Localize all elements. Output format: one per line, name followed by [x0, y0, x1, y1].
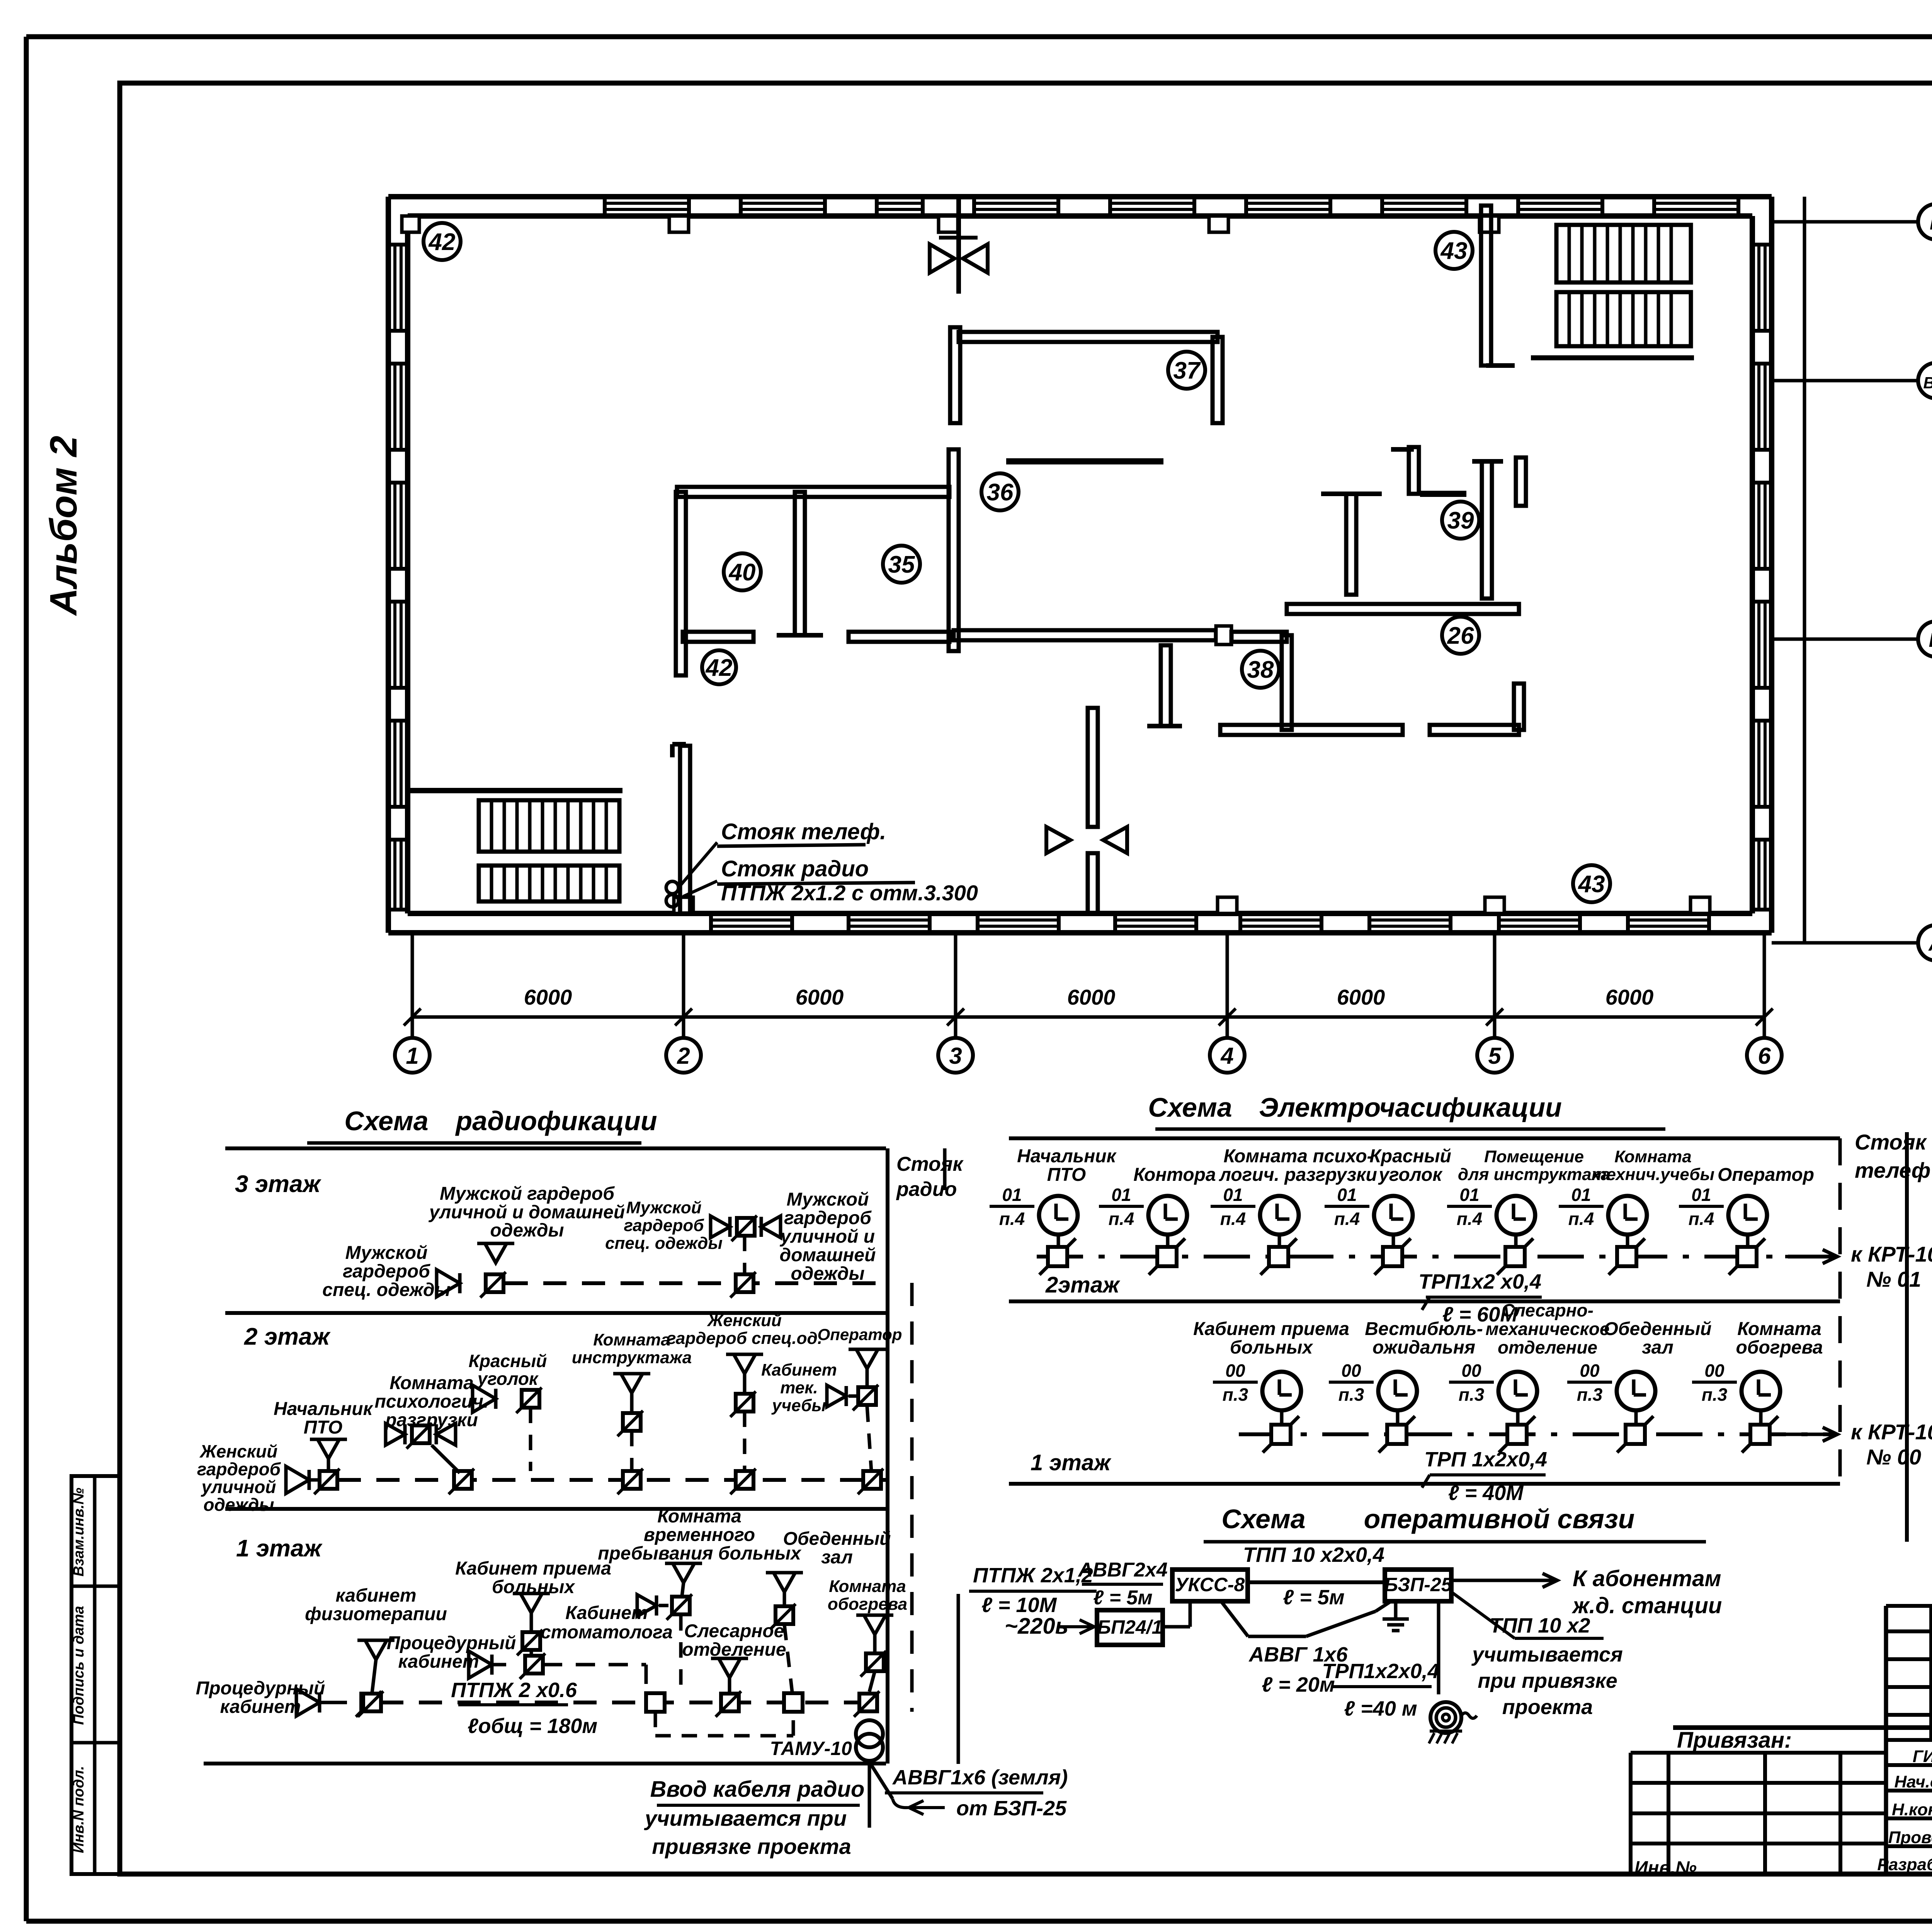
- svg-text:1 этаж: 1 этаж: [1031, 1450, 1112, 1475]
- svg-text:Альбом 2: Альбом 2: [42, 436, 85, 617]
- svg-text:01: 01: [1459, 1185, 1479, 1205]
- svg-text:00: 00: [1704, 1361, 1725, 1381]
- svg-text:Мужской: Мужской: [345, 1243, 428, 1263]
- svg-text:Красный: Красный: [469, 1351, 547, 1371]
- svg-text:гардероб: гардероб: [197, 1459, 281, 1479]
- svg-text:6000: 6000: [1067, 985, 1116, 1009]
- svg-text:ожидальня: ожидальня: [1372, 1337, 1475, 1358]
- svg-text:пребывания больных: пребывания больных: [598, 1543, 802, 1564]
- svg-text:№ 01: № 01: [1866, 1267, 1921, 1291]
- svg-text:42: 42: [705, 655, 733, 681]
- svg-text:п.3: п.3: [1459, 1384, 1485, 1405]
- svg-text:ГИП: ГИП: [1913, 1747, 1932, 1766]
- svg-text:Инв.N подл.: Инв.N подл.: [71, 1766, 87, 1853]
- svg-text:гардероб: гардероб: [624, 1216, 705, 1235]
- svg-text:01: 01: [1691, 1185, 1711, 1205]
- svg-text:01: 01: [1111, 1185, 1131, 1205]
- svg-text:гардероб: гардероб: [784, 1208, 872, 1228]
- svg-text:Стояк телеф.: Стояк телеф.: [721, 819, 886, 844]
- svg-text:Н.контр.: Н.контр.: [1892, 1800, 1932, 1819]
- svg-text:Инв.№: Инв.№: [1634, 1858, 1697, 1878]
- svg-text:Начальник: Начальник: [1017, 1146, 1117, 1167]
- svg-text:ПТПЖ 2х1,2: ПТПЖ 2х1,2: [973, 1564, 1093, 1587]
- svg-text:Кабинет: Кабинет: [761, 1361, 837, 1379]
- svg-text:Оператор: Оператор: [818, 1325, 902, 1344]
- svg-text:радио: радио: [896, 1178, 957, 1201]
- svg-text:от БЗП-25: от БЗП-25: [956, 1797, 1067, 1820]
- svg-text:43: 43: [1440, 238, 1468, 264]
- svg-text:оперативной связи: оперативной связи: [1364, 1504, 1635, 1534]
- svg-text:Комната психо-: Комната психо-: [1223, 1146, 1373, 1167]
- svg-text:п.4: п.4: [1109, 1209, 1134, 1229]
- svg-text:отделение: отделение: [1498, 1337, 1597, 1357]
- svg-text:01: 01: [1337, 1185, 1357, 1205]
- svg-text:6000: 6000: [524, 985, 572, 1009]
- svg-text:кабинет: кабинет: [220, 1697, 301, 1717]
- svg-text:ТПП 10 х2х0,4: ТПП 10 х2х0,4: [1243, 1543, 1384, 1566]
- svg-text:п.4: п.4: [999, 1209, 1025, 1229]
- svg-text:В/1: В/1: [1923, 374, 1932, 392]
- svg-text:Проверил: Проверил: [1888, 1828, 1932, 1847]
- svg-text:п.4: п.4: [1689, 1209, 1714, 1229]
- svg-text:Мужской: Мужской: [787, 1189, 869, 1210]
- svg-text:ТРП1х2 х0,4: ТРП1х2 х0,4: [1418, 1270, 1541, 1293]
- svg-text:тек.: тек.: [780, 1378, 818, 1397]
- svg-text:А: А: [1928, 933, 1932, 955]
- svg-text:Начальник: Начальник: [274, 1399, 373, 1419]
- svg-text:к КРТ-10: к КРТ-10: [1851, 1420, 1932, 1444]
- svg-text:Нач.отд: Нач.отд: [1894, 1772, 1932, 1791]
- svg-text:Привязан:: Привязан:: [1677, 1728, 1792, 1753]
- svg-text:Ввод кабеля радио: Ввод кабеля радио: [650, 1777, 865, 1802]
- svg-text:временного: временного: [644, 1525, 755, 1545]
- svg-text:Комната: Комната: [389, 1373, 474, 1393]
- svg-text:40: 40: [728, 559, 756, 586]
- svg-text:ТАМУ-10: ТАМУ-10: [770, 1738, 852, 1759]
- svg-text:ℓ = 5м: ℓ = 5м: [1283, 1586, 1344, 1609]
- svg-text:для инструктаха: для инструктаха: [1458, 1165, 1610, 1184]
- svg-text:ж.д. станции: ж.д. станции: [1571, 1593, 1722, 1618]
- svg-text:п.3: п.3: [1702, 1384, 1728, 1405]
- svg-text:Обеденный: Обеденный: [1604, 1319, 1712, 1339]
- svg-text:учитывается при: учитывается при: [644, 1806, 847, 1830]
- svg-text:3: 3: [949, 1043, 962, 1069]
- svg-text:АВВГ2х4: АВВГ2х4: [1077, 1559, 1167, 1581]
- svg-text:зал: зал: [1642, 1337, 1673, 1358]
- svg-text:1 этаж: 1 этаж: [236, 1535, 323, 1562]
- svg-text:38: 38: [1247, 656, 1274, 683]
- svg-text:6000: 6000: [796, 985, 844, 1009]
- svg-text:ТРП 1х2х0,4: ТРП 1х2х0,4: [1424, 1448, 1547, 1471]
- svg-text:гардероб: гардероб: [343, 1261, 430, 1282]
- svg-text:Стояк: Стояк: [1855, 1130, 1927, 1154]
- svg-text:инструктажа: инструктажа: [572, 1348, 692, 1367]
- svg-text:Г: Г: [1930, 212, 1932, 234]
- svg-text:технич.учебы: технич.учебы: [1592, 1165, 1714, 1184]
- svg-text:п.4: п.4: [1568, 1209, 1594, 1229]
- svg-text:АВВГ1х6 (земля): АВВГ1х6 (земля): [892, 1766, 1068, 1789]
- svg-text:больных: больных: [1230, 1337, 1313, 1358]
- svg-text:при привязке: при привязке: [1478, 1669, 1617, 1692]
- svg-text:уличной: уличной: [201, 1477, 276, 1497]
- svg-text:39: 39: [1447, 507, 1474, 534]
- svg-text:Комната: Комната: [1614, 1147, 1691, 1166]
- svg-text:37: 37: [1173, 357, 1201, 384]
- svg-text:2этаж: 2этаж: [1045, 1272, 1121, 1298]
- svg-text:Кабинет приема: Кабинет приема: [455, 1558, 611, 1579]
- svg-text:6000: 6000: [1337, 985, 1385, 1009]
- svg-text:Слесарно-: Слесарно-: [1502, 1300, 1594, 1320]
- svg-text:спец. одежды: спец. одежды: [605, 1234, 723, 1253]
- svg-text:УКСС-8: УКСС-8: [1175, 1574, 1245, 1595]
- svg-text:№ 00: № 00: [1866, 1445, 1921, 1469]
- svg-text:Электрочасификации: Электрочасификации: [1259, 1092, 1562, 1122]
- svg-text:00: 00: [1225, 1361, 1245, 1381]
- svg-text:п.4: п.4: [1220, 1209, 1246, 1229]
- svg-text:гардероб спец.од.: гардероб спец.од.: [667, 1329, 822, 1348]
- svg-text:Кабинет приема: Кабинет приема: [1193, 1319, 1349, 1339]
- svg-text:6: 6: [1758, 1043, 1771, 1069]
- svg-text:Мужской: Мужской: [626, 1198, 701, 1217]
- svg-text:Подпись и дата: Подпись и дата: [71, 1606, 87, 1725]
- svg-text:Обеденный: Обеденный: [783, 1529, 891, 1549]
- svg-text:Схема: Схема: [1221, 1504, 1305, 1534]
- svg-text:Слесарное: Слесарное: [684, 1621, 784, 1641]
- svg-text:Б: Б: [1929, 629, 1932, 651]
- svg-text:6000: 6000: [1605, 985, 1654, 1009]
- svg-text:2 этаж: 2 этаж: [244, 1323, 331, 1350]
- svg-text:1: 1: [406, 1043, 418, 1069]
- svg-text:43: 43: [1578, 871, 1605, 898]
- svg-text:БЗП-25: БЗП-25: [1384, 1574, 1452, 1595]
- svg-text:одежды: одежды: [490, 1220, 564, 1241]
- svg-text:спец. одежды: спец. одежды: [322, 1280, 450, 1300]
- svg-text:Вестибюль-: Вестибюль-: [1365, 1319, 1483, 1339]
- svg-text:00: 00: [1580, 1361, 1600, 1381]
- svg-text:проекта: проекта: [1502, 1696, 1593, 1719]
- svg-text:кабинет: кабинет: [398, 1651, 479, 1672]
- svg-text:26: 26: [1447, 622, 1474, 649]
- svg-text:42: 42: [428, 229, 456, 255]
- svg-text:п.3: п.3: [1223, 1384, 1248, 1405]
- svg-text:Помещение: Помещение: [1484, 1147, 1584, 1166]
- svg-text:учебы: учебы: [771, 1396, 826, 1415]
- svg-text:привязке проекта: привязке проекта: [652, 1834, 851, 1859]
- svg-text:п.3: п.3: [1577, 1384, 1603, 1405]
- svg-text:учитывается: учитывается: [1471, 1643, 1623, 1666]
- svg-text:механическое: механическое: [1486, 1319, 1610, 1339]
- svg-text:ℓобщ = 180м: ℓобщ = 180м: [468, 1714, 597, 1738]
- svg-text:ℓ = 5м: ℓ = 5м: [1093, 1587, 1153, 1609]
- svg-text:5: 5: [1488, 1043, 1502, 1069]
- svg-text:Процедурный: Процедурный: [387, 1633, 516, 1653]
- svg-text:ПТО: ПТО: [1047, 1165, 1086, 1185]
- svg-text:Схема: Схема: [344, 1106, 428, 1136]
- svg-text:уличной и домашней: уличной и домашней: [429, 1202, 625, 1223]
- svg-text:ТПП 10 х2: ТПП 10 х2: [1490, 1614, 1590, 1637]
- svg-text:к КРТ-10: к КРТ-10: [1851, 1242, 1932, 1266]
- svg-text:одежды: одежды: [791, 1264, 864, 1284]
- svg-text:Женский: Женский: [707, 1311, 782, 1330]
- svg-text:п.4: п.4: [1457, 1209, 1482, 1229]
- svg-text:ℓ = 10М: ℓ = 10М: [981, 1594, 1057, 1617]
- svg-text:кабинет: кабинет: [335, 1585, 416, 1606]
- svg-text:уличной и: уличной и: [780, 1226, 875, 1247]
- svg-text:Контора: Контора: [1133, 1165, 1216, 1185]
- svg-text:одежды: одежды: [203, 1495, 274, 1515]
- svg-text:уголок: уголок: [1378, 1165, 1443, 1185]
- svg-text:п.4: п.4: [1334, 1209, 1360, 1229]
- svg-text:уголок: уголок: [477, 1369, 539, 1389]
- svg-text:00: 00: [1341, 1361, 1361, 1381]
- svg-text:Комната: Комната: [593, 1330, 670, 1349]
- svg-text:стоматолога: стоматолога: [541, 1622, 673, 1643]
- svg-text:3 этаж: 3 этаж: [235, 1171, 322, 1197]
- svg-text:Красный: Красный: [1369, 1146, 1451, 1167]
- svg-text:Взам.инв.№: Взам.инв.№: [71, 1488, 87, 1577]
- svg-text:01: 01: [1223, 1185, 1243, 1205]
- svg-text:Оператор: Оператор: [1718, 1165, 1814, 1185]
- svg-text:Разработал: Разработал: [1877, 1855, 1932, 1874]
- svg-text:4: 4: [1220, 1043, 1233, 1069]
- svg-text:00: 00: [1461, 1361, 1481, 1381]
- svg-text:БП24/1: БП24/1: [1097, 1616, 1163, 1638]
- svg-text:зал: зал: [821, 1547, 853, 1568]
- svg-text:35: 35: [888, 551, 915, 578]
- svg-text:ℓ =40 м: ℓ =40 м: [1344, 1697, 1417, 1720]
- svg-text:Женский: Женский: [199, 1441, 278, 1461]
- svg-text:01: 01: [1002, 1185, 1022, 1205]
- svg-text:обогрева: обогрева: [828, 1595, 907, 1614]
- svg-text:Стояк: Стояк: [896, 1153, 964, 1175]
- svg-text:2: 2: [677, 1043, 690, 1069]
- svg-text:ТРП1х2х0,4: ТРП1х2х0,4: [1322, 1660, 1439, 1683]
- svg-text:Мужской гардероб: Мужской гардероб: [440, 1184, 615, 1204]
- svg-text:Комната: Комната: [657, 1506, 742, 1527]
- svg-text:К абонентам: К абонентам: [1573, 1566, 1721, 1591]
- svg-text:36: 36: [987, 479, 1014, 506]
- svg-text:ПТПЖ 2х1.2 с отм.3.300: ПТПЖ 2х1.2 с отм.3.300: [721, 881, 978, 905]
- svg-text:01: 01: [1571, 1185, 1591, 1205]
- svg-text:физиотерапии: физиотерапии: [305, 1604, 447, 1624]
- svg-text:ПТПЖ 2 х0.6: ПТПЖ 2 х0.6: [451, 1679, 577, 1702]
- svg-text:ПТО: ПТО: [304, 1417, 343, 1438]
- svg-text:телеф: телеф: [1855, 1158, 1930, 1182]
- svg-text:логич. разгрузки: логич. разгрузки: [1219, 1165, 1377, 1185]
- svg-text:радиофикации: радиофикации: [455, 1106, 657, 1136]
- svg-text:Комната: Комната: [829, 1577, 906, 1596]
- svg-text:домашней: домашней: [780, 1245, 876, 1265]
- svg-text:п.3: п.3: [1338, 1384, 1364, 1405]
- svg-text:Схема: Схема: [1148, 1092, 1232, 1122]
- svg-text:Комната: Комната: [1737, 1319, 1821, 1339]
- svg-text:Стояк радио: Стояк радио: [721, 856, 869, 881]
- svg-text:обогрева: обогрева: [1736, 1337, 1823, 1358]
